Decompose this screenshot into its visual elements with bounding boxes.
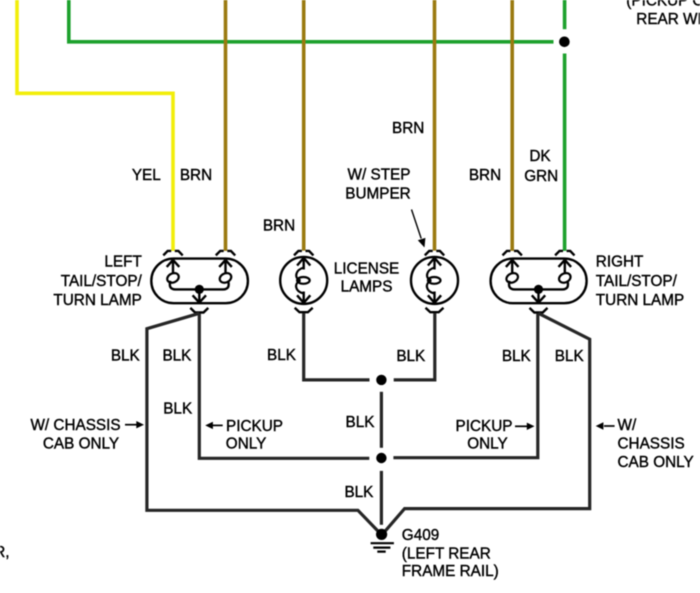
svg-text:G409: G409 bbox=[402, 527, 439, 544]
connector hat below right license lamp bbox=[426, 308, 444, 313]
connector hat above left lamp pin B bbox=[216, 251, 235, 256]
svg-text:TURN LAMP: TURN LAMP bbox=[53, 292, 141, 309]
lamp RIGHT LICENSE body bbox=[411, 257, 458, 304]
svg-text:LAMPS: LAMPS bbox=[341, 278, 393, 295]
svg-text:(LEFT REAR: (LEFT REAR bbox=[402, 545, 491, 562]
left license filament loop bbox=[297, 277, 310, 284]
arrow W/ CHASSIS CAB ONLY right bbox=[596, 422, 615, 429]
wire BLK left chassis-cab path bbox=[147, 313, 378, 531]
svg-text:BLK: BLK bbox=[111, 347, 141, 364]
left license arrow down bbox=[297, 292, 310, 303]
svg-text:LEFT: LEFT bbox=[104, 254, 141, 271]
arrow W/ STEP BUMPER callout bbox=[412, 210, 426, 248]
left license filament coil bbox=[296, 268, 304, 294]
lamp LEFT TAIL/STOP/TURN body bbox=[151, 259, 248, 304]
right lamp bulb 1 filament loop bbox=[505, 271, 520, 284]
wire BRN to left license lamp bbox=[302, 0, 306, 251]
junction dot green node bbox=[559, 37, 570, 48]
connector hat above left license lamp bbox=[294, 251, 313, 256]
connector hat above left lamp pin A bbox=[163, 251, 182, 256]
left lamp bulb 2 filament loop bbox=[218, 271, 233, 284]
svg-text:PICKUP: PICKUP bbox=[226, 418, 283, 435]
svg-text:CAB ONLY: CAB ONLY bbox=[43, 436, 119, 453]
left license arrow up bbox=[297, 258, 310, 270]
connector hat above right lamp pin B bbox=[555, 251, 574, 256]
svg-text:BLK: BLK bbox=[267, 347, 297, 364]
left lamp internal junction node bbox=[195, 285, 204, 294]
connector hat above right lamp pin A bbox=[503, 251, 522, 256]
svg-text:FRAME RAIL): FRAME RAIL) bbox=[402, 563, 499, 580]
svg-text:W/ CHASSIS: W/ CHASSIS bbox=[30, 417, 120, 434]
svg-text:BLK: BLK bbox=[555, 348, 585, 365]
wire DK GRN vertical to right lamp bbox=[563, 54, 567, 251]
svg-text:BRN: BRN bbox=[469, 167, 501, 184]
lamp LEFT LICENSE body bbox=[280, 257, 327, 304]
wire BLK left license down bbox=[304, 313, 370, 380]
node license junction dot bbox=[376, 375, 386, 385]
svg-text:BUMPER: BUMPER bbox=[345, 186, 410, 203]
svg-text:PICKUP: PICKUP bbox=[456, 418, 513, 435]
ground G409 dot bbox=[376, 529, 387, 540]
connector hat below right lamp bbox=[530, 308, 548, 313]
svg-text:BLK: BLK bbox=[162, 347, 192, 364]
connector hat below left license lamp bbox=[295, 308, 313, 313]
right license filament coil bbox=[427, 268, 435, 294]
svg-text:BRN: BRN bbox=[392, 120, 424, 137]
ground G409 symbol bbox=[371, 543, 394, 551]
svg-text:ONLY: ONLY bbox=[226, 435, 267, 452]
svg-text:BLK: BLK bbox=[502, 348, 532, 365]
node pickup junction dot bbox=[376, 453, 386, 463]
lamp RIGHT TAIL/STOP/TURN body bbox=[491, 259, 587, 304]
svg-text:BLK: BLK bbox=[344, 484, 374, 501]
svg-text:BLK: BLK bbox=[346, 414, 376, 431]
wire DK GRN vertical upper bbox=[563, 0, 567, 29]
svg-text:TAIL/STOP/: TAIL/STOP/ bbox=[61, 273, 143, 290]
svg-text:TURN LAMP: TURN LAMP bbox=[596, 292, 684, 309]
wire DK GRN feed horizontal bbox=[69, 0, 554, 42]
wire BLK right chassis-cab path bbox=[385, 313, 590, 531]
wire BRN to right license lamp bbox=[433, 0, 437, 251]
right license filament loop bbox=[428, 277, 441, 284]
svg-text:ONLY: ONLY bbox=[467, 435, 508, 452]
svg-text:(PICKUP C: (PICKUP C bbox=[626, 0, 700, 10]
left lamp bulb 1 arrow bbox=[167, 260, 180, 273]
svg-text:TAIL/STOP/: TAIL/STOP/ bbox=[596, 273, 678, 290]
wire BLK left pickup path bbox=[199, 313, 369, 458]
left lamp ground arrow down bbox=[193, 289, 206, 302]
wire BLK right pickup path bbox=[393, 313, 537, 457]
wire BLK right license down bbox=[394, 313, 435, 380]
right lamp internal junction node bbox=[534, 285, 543, 294]
arrow W/ CHASSIS CAB ONLY left bbox=[125, 421, 144, 428]
svg-text:DK: DK bbox=[529, 148, 551, 165]
svg-text:BRN: BRN bbox=[263, 217, 295, 234]
wire BLK center vertical lower bbox=[380, 471, 383, 525]
svg-text:BLK: BLK bbox=[163, 400, 193, 417]
wire YEL feed bbox=[17, 0, 173, 251]
left lamp bulb 1 filament loop bbox=[166, 271, 181, 284]
svg-text:BRN: BRN bbox=[180, 167, 212, 184]
svg-text:R,: R, bbox=[0, 544, 10, 561]
right license arrow up bbox=[428, 258, 441, 270]
right lamp bulb 2 arrow bbox=[559, 260, 572, 273]
connector hat below left lamp bbox=[190, 308, 208, 313]
svg-text:YEL: YEL bbox=[132, 167, 161, 184]
right license arrow down bbox=[428, 292, 441, 303]
wire BRN to left lamp bbox=[224, 0, 228, 251]
arrow PICKUP ONLY right bbox=[515, 423, 535, 430]
svg-text:LICENSE: LICENSE bbox=[334, 261, 399, 278]
svg-text:RIGHT: RIGHT bbox=[596, 254, 644, 271]
svg-text:REAR WIN: REAR WIN bbox=[636, 11, 700, 28]
wire BLK center vertical upper bbox=[380, 392, 383, 448]
connector hat above right license lamp bbox=[425, 251, 444, 256]
wire BRN to right lamp bbox=[510, 0, 514, 251]
right lamp internal return path bbox=[509, 281, 568, 290]
right lamp bulb 1 arrow bbox=[506, 260, 519, 273]
svg-text:GRN: GRN bbox=[524, 168, 558, 185]
svg-text:CAB ONLY: CAB ONLY bbox=[618, 454, 694, 471]
left lamp internal return path bbox=[170, 281, 229, 290]
svg-text:W/ STEP: W/ STEP bbox=[348, 166, 411, 183]
right lamp bulb 2 filament loop bbox=[557, 271, 572, 284]
svg-text:W/: W/ bbox=[618, 417, 637, 434]
svg-text:CHASSIS: CHASSIS bbox=[618, 436, 685, 453]
right lamp ground arrow down bbox=[532, 289, 545, 302]
arrow PICKUP ONLY left bbox=[205, 422, 223, 429]
left lamp bulb 2 arrow bbox=[219, 260, 232, 273]
svg-text:BLK: BLK bbox=[396, 348, 426, 365]
